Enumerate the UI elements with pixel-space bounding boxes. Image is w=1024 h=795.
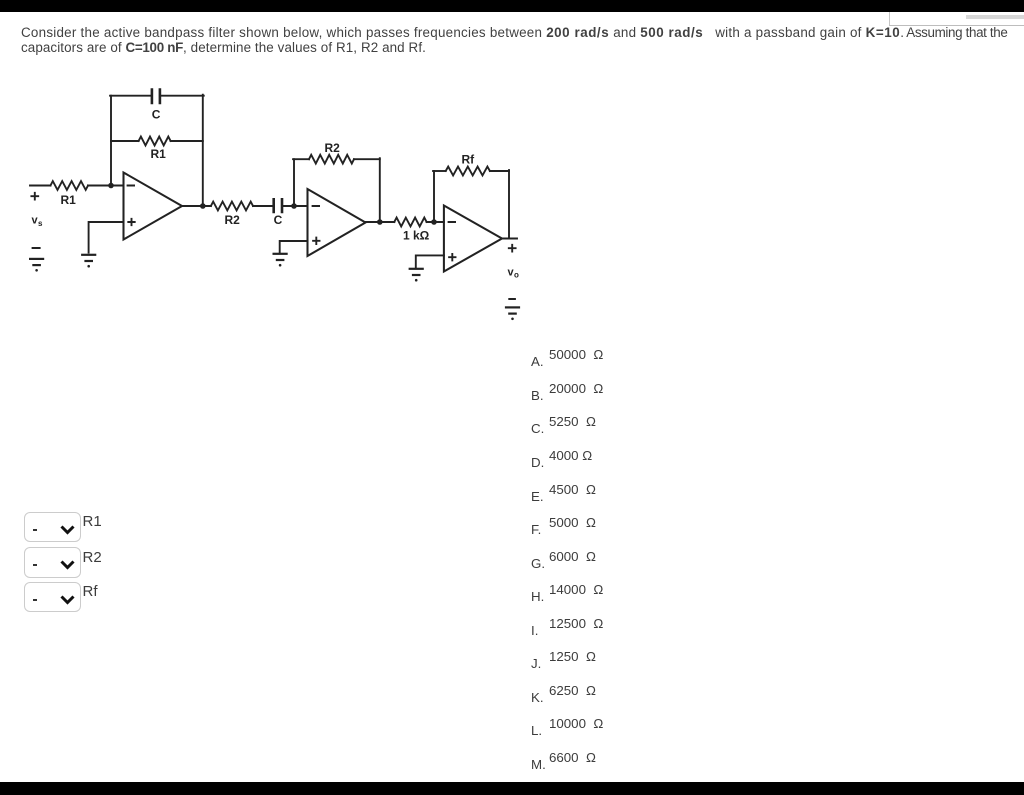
circuit schematic svg	[0, 0, 560, 340]
ground (op2 non-inverting)	[274, 254, 287, 267]
op-amp U2 plus pin mark	[313, 238, 319, 244]
answer H	[530, 581, 532, 583]
wire op3 feedback rail left	[433, 170, 446, 172]
answer L	[530, 715, 532, 717]
op-amp U1 plus pin mark	[128, 219, 134, 225]
dropdown select R2	[24, 547, 81, 578]
op-amp U1	[124, 173, 183, 240]
svg-text:s: s	[38, 219, 43, 228]
svg-text:R1: R1	[151, 147, 167, 161]
label Rf	[83, 583, 98, 600]
top black bar	[0, 0, 1024, 12]
wire op3 feedback left vertical	[433, 171, 435, 222]
label R2	[83, 549, 102, 566]
source terminal Vs plus	[31, 193, 38, 200]
wire op2 output	[366, 221, 395, 223]
resistor 1 kOhm	[394, 218, 426, 227]
wire op2 feedback right vertical	[379, 158, 381, 222]
wire op1 non-inverting input	[89, 222, 124, 253]
svg-text:C: C	[152, 108, 161, 122]
wire 1k to op3 inverting node	[427, 221, 444, 223]
resistor R2 (series)	[211, 202, 253, 211]
wire op3 feedback right vertical	[508, 170, 510, 238]
svg-text:1 kΩ: 1 kΩ	[403, 229, 430, 243]
bottom black bar	[0, 782, 1024, 795]
answer A	[530, 346, 532, 348]
answer B	[530, 380, 532, 382]
node (op2 inverting input)	[291, 203, 297, 209]
answer C	[530, 413, 532, 415]
op-amp U1 minus pin mark	[128, 185, 134, 187]
answer D	[530, 447, 532, 449]
wire top rail left	[110, 95, 152, 97]
resistor R1 (input)	[51, 181, 89, 190]
svg-text:R2: R2	[325, 141, 341, 155]
output terminal Vo plus	[509, 245, 516, 252]
wire op2 non-inverting input	[280, 241, 308, 252]
ground (op1 non-inverting)	[82, 255, 95, 268]
answer K	[530, 682, 532, 684]
output terminal Vo minus	[509, 298, 515, 300]
wire R2 to capacitor	[253, 205, 274, 207]
node (op2 output)	[377, 219, 383, 225]
capacitor C (feedback)	[152, 90, 160, 104]
source terminal Vs minus	[33, 247, 40, 249]
op-amp U3 minus pin mark	[449, 221, 455, 223]
answer F	[530, 514, 532, 516]
answer M	[530, 749, 532, 751]
wire op2 feedback rail right	[354, 158, 380, 160]
question text	[21, 26, 1024, 55]
dropdown select R1	[24, 512, 81, 543]
svg-text:C: C	[274, 213, 283, 227]
ground (below Vs)	[30, 259, 43, 272]
label Vo	[508, 266, 520, 279]
svg-text:Rf: Rf	[462, 153, 476, 167]
svg-text:o: o	[514, 271, 519, 280]
wire feedback mid-left stub	[111, 140, 139, 142]
resistor R2 (feedback)	[309, 155, 354, 164]
top-right grey bar	[966, 15, 1024, 19]
wire feedback left vertical	[110, 96, 112, 186]
node (op1 output)	[200, 203, 206, 209]
wire op3 output	[502, 238, 517, 240]
wire op1 output	[182, 205, 211, 207]
wire op3 feedback rail right	[490, 170, 509, 172]
op-amp U2	[308, 189, 366, 256]
ground (below Vo)	[506, 307, 519, 320]
ground (op3 non-inverting)	[410, 269, 423, 282]
label R1	[83, 513, 102, 530]
capacitor C (series)	[274, 199, 282, 212]
answer E	[530, 481, 532, 483]
wire feedback right vertical	[202, 95, 204, 206]
wire op3 non-inverting input	[416, 255, 444, 267]
answer G	[530, 548, 532, 550]
dropdown select Rf	[24, 582, 81, 613]
wire op2 feedback rail left	[293, 158, 309, 160]
wire input lead	[30, 185, 51, 187]
wire capacitor to op2 inverting node	[282, 205, 308, 207]
op-amp U3	[444, 206, 502, 272]
svg-text:R2: R2	[225, 213, 241, 227]
resistor Rf	[446, 167, 490, 176]
answer I	[530, 615, 532, 617]
label Vs	[32, 215, 44, 229]
answer J	[530, 648, 532, 650]
op-amp U2 minus pin mark	[313, 205, 319, 207]
node (op1 inverting input)	[108, 183, 114, 189]
wire feedback mid-right stub	[171, 140, 203, 142]
top-right cropped UI box	[889, 12, 1024, 26]
wire op2 feedback left vertical	[293, 159, 295, 206]
op-amp U3 plus pin mark	[449, 254, 455, 260]
svg-text:R1: R1	[61, 193, 77, 207]
wire resistor to inverting node	[88, 185, 124, 187]
node (op3 inverting input)	[431, 219, 437, 225]
wire top rail right	[160, 95, 204, 97]
resistor R1 (feedback)	[139, 137, 171, 146]
